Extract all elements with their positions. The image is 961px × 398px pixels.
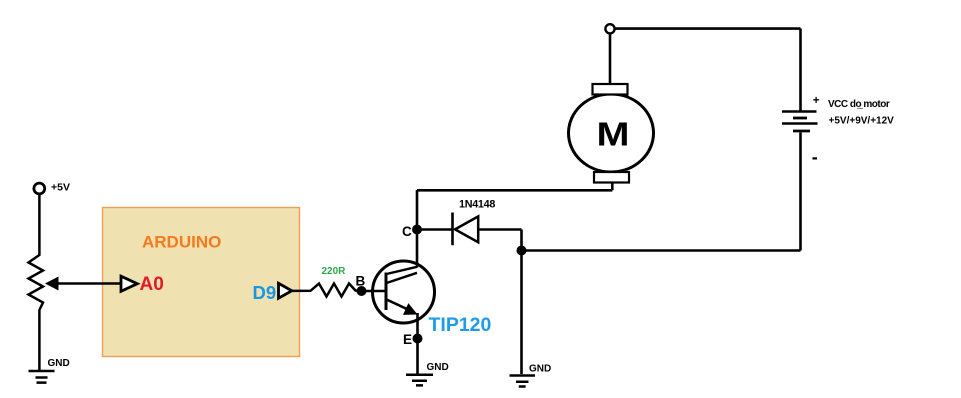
svg-text:M: M bbox=[597, 116, 630, 153]
svg-text:A0: A0 bbox=[140, 274, 164, 295]
svg-text:220R: 220R bbox=[322, 266, 347, 277]
svg-text:GND: GND bbox=[427, 362, 449, 373]
svg-text:D9: D9 bbox=[253, 282, 277, 303]
svg-text:C: C bbox=[402, 224, 412, 239]
svg-text:1N4148: 1N4148 bbox=[459, 198, 495, 210]
svg-text:B: B bbox=[356, 274, 366, 289]
svg-text:GND: GND bbox=[529, 364, 551, 375]
svg-text:+5V/+9V/+12V: +5V/+9V/+12V bbox=[829, 116, 895, 127]
svg-text:GND: GND bbox=[48, 358, 70, 369]
svg-text:ARDUINO: ARDUINO bbox=[142, 233, 221, 252]
svg-text:-: - bbox=[812, 147, 818, 167]
svg-text:E: E bbox=[403, 332, 412, 347]
svg-text:+5V: +5V bbox=[51, 182, 70, 194]
svg-text:TIP120: TIP120 bbox=[429, 314, 492, 336]
svg-text:+: + bbox=[813, 95, 820, 107]
